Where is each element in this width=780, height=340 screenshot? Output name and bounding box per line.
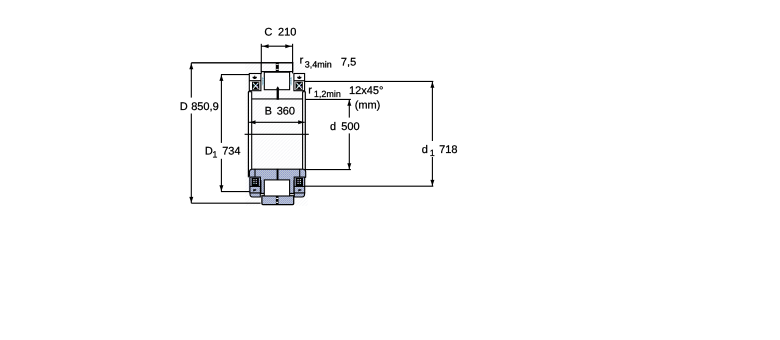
cage symbol left xyxy=(253,77,257,79)
d dimension xyxy=(305,99,360,169)
bore top line xyxy=(252,98,303,100)
roller X square right xyxy=(296,82,303,90)
cage symbol right xyxy=(297,77,301,79)
inner side lines xyxy=(251,92,253,170)
svg-text:1,2min: 1,2min xyxy=(314,89,341,99)
svg-text:7,5: 7,5 xyxy=(341,57,356,69)
svg-text:D: D xyxy=(180,101,188,113)
lubrication slot below center block xyxy=(276,86,279,88)
horizontal centerline xyxy=(245,133,309,135)
C dimension xyxy=(261,26,296,73)
below-block patches xyxy=(250,193,260,197)
D1 dimension xyxy=(205,75,250,192)
bottom band xyxy=(262,196,294,205)
vertical centerline (dash bar in top band) xyxy=(276,63,279,72)
svg-text:d: d xyxy=(422,144,428,156)
D dimension (left) xyxy=(180,63,293,203)
svg-text:d: d xyxy=(330,121,336,133)
left column sliver xyxy=(249,177,251,194)
centerline bar through bottom band xyxy=(276,197,279,205)
svg-text:12x45°: 12x45° xyxy=(349,85,383,97)
bottom right roller block xyxy=(294,177,305,193)
outer ring top band xyxy=(261,63,293,72)
centerline bar through bottom blue xyxy=(277,169,279,180)
d1 dimension xyxy=(305,81,458,186)
right roller block xyxy=(294,74,305,91)
bottom inner-ring chamfer verticals xyxy=(254,169,256,177)
svg-text:r: r xyxy=(308,84,312,96)
outer side faces xyxy=(247,92,249,178)
svg-text:(mm): (mm) xyxy=(355,99,381,111)
bottom left roller block xyxy=(250,177,261,193)
bottom center white rect xyxy=(264,180,289,196)
svg-text:734: 734 xyxy=(222,146,240,158)
svg-text:850,9: 850,9 xyxy=(191,101,219,113)
faint section hatch over bearing area xyxy=(245,62,307,206)
seal column edges xyxy=(260,180,262,194)
svg-text:3,4min: 3,4min xyxy=(305,60,332,70)
svg-text:500: 500 xyxy=(341,121,359,133)
roller X square left xyxy=(252,82,259,90)
seal column bottom caps xyxy=(261,193,264,195)
svg-text:360: 360 xyxy=(277,105,295,117)
svg-text:1: 1 xyxy=(430,148,435,158)
svg-text:C: C xyxy=(264,26,272,38)
r 1,2min label xyxy=(308,84,341,99)
r 3,4min label xyxy=(300,55,332,70)
left roller block xyxy=(249,74,261,91)
inner ring center block xyxy=(264,72,289,90)
inner ring shoulders xyxy=(248,91,252,93)
svg-text:210: 210 xyxy=(278,26,296,38)
seal right xyxy=(290,77,292,85)
seal left xyxy=(262,77,264,85)
svg-text:r: r xyxy=(300,55,304,67)
blue body: full-width band with rounded top corners xyxy=(249,169,306,204)
svg-text:B: B xyxy=(265,105,272,117)
middle zone down to white rect xyxy=(260,176,294,194)
B dimension xyxy=(249,105,305,124)
svg-text:1: 1 xyxy=(212,150,217,160)
svg-text:718: 718 xyxy=(439,144,457,156)
